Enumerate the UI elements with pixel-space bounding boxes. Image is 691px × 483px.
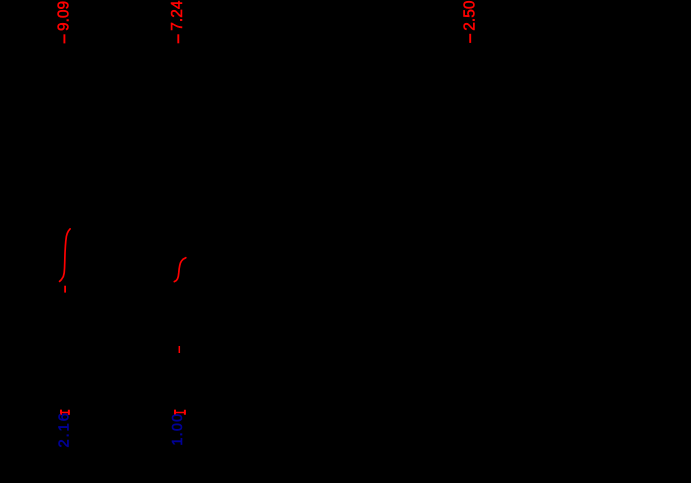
peak apex tick 1 xyxy=(64,286,66,293)
svg-text:7.24: 7.24 xyxy=(169,0,186,31)
peak tick 7.24 xyxy=(177,34,179,43)
peak tick 2.50 xyxy=(469,34,471,43)
peak tick 9.09 xyxy=(63,34,65,43)
integral curve 1 (9.09 peak) xyxy=(60,229,71,282)
integral bracket 2 xyxy=(174,412,185,414)
svg-text:2.16: 2.16 xyxy=(55,411,72,447)
svg-text:2.50: 2.50 xyxy=(461,0,478,31)
integral curve 2 (7.24 peak) xyxy=(174,258,186,282)
svg-text:9.09: 9.09 xyxy=(55,1,72,31)
peak apex tick 2 xyxy=(178,346,180,353)
integral bracket 1 xyxy=(60,411,69,413)
svg-text:1.00: 1.00 xyxy=(170,413,186,446)
